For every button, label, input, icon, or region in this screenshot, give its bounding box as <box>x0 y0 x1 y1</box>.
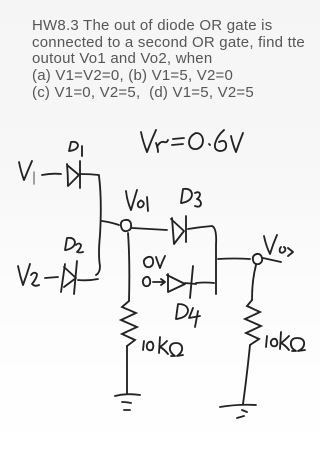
value label Vr = 0.6V <box>141 130 243 152</box>
source label V1 <box>19 161 34 184</box>
wire branch to node Vo2 <box>218 258 250 261</box>
wire below right resistor <box>243 345 250 404</box>
wire V2 to D2 <box>45 277 58 278</box>
label D2 <box>65 238 83 253</box>
label Vo2 <box>264 235 293 256</box>
label D1 <box>69 142 82 156</box>
label D3 <box>181 189 201 207</box>
wire right of node Vo2 <box>263 258 281 262</box>
diode D1 <box>67 161 80 188</box>
annotation 0V at node between D3 and D4 <box>144 256 165 268</box>
wire D2 to junction <box>78 279 98 280</box>
node Vo2 junction circle <box>253 254 262 264</box>
wire D3 to corner and down to D4 junction <box>188 226 216 294</box>
annotation 0 with arrow into D4 <box>143 277 165 286</box>
wire D4 to vertical <box>196 282 214 285</box>
resistor R2 zigzag (right 10k) <box>245 300 261 345</box>
label 10kΩ (right) <box>266 332 305 351</box>
source label V2 <box>18 264 39 286</box>
wire D1 to corner <box>81 174 99 175</box>
diode D3 <box>171 216 186 244</box>
ground (left) <box>115 394 140 410</box>
diode D4 <box>167 266 196 298</box>
resistor R1 zigzag (left 10k) <box>121 301 137 346</box>
ground (right) <box>220 405 256 418</box>
wire V1 to D1 <box>42 174 61 175</box>
wire vertical from D1 corner down to D2 junction <box>96 176 101 275</box>
node Vo1 junction circle <box>121 220 131 231</box>
label 10kΩ (left) <box>143 337 183 356</box>
wire node Vo1 to D3 <box>132 228 167 230</box>
label Vo1 <box>126 190 148 211</box>
wire node Vo1 down to left resistor <box>128 233 129 301</box>
wire below left resistor <box>126 346 128 393</box>
wire node Vo2 down to resistor <box>252 265 256 300</box>
problem statement text <box>32 18 305 102</box>
label D4 <box>176 304 200 327</box>
diode D2 <box>61 261 77 294</box>
wire junction to node Vo1 <box>102 221 119 225</box>
